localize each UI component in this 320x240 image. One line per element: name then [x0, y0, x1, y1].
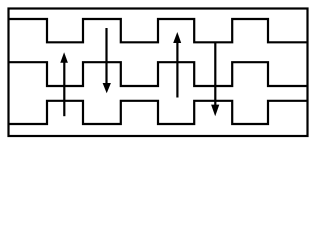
- up arrow 2: [173, 32, 181, 98]
- meander line M3 (bottom square wave, opposite phase): [8, 101, 308, 124]
- down arrow 1: [103, 28, 111, 93]
- meander line M1 (top square wave): [8, 19, 308, 42]
- meander line M2 (middle square wave): [8, 62, 308, 86]
- down arrow 2: [211, 42, 219, 116]
- up arrow 1: [60, 52, 68, 116]
- outer frame: [9, 9, 308, 137]
